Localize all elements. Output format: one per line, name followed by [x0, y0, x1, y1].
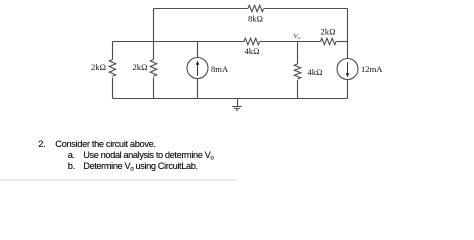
wire left-branch bottom: [112, 78, 114, 99]
problem text line 2b: [68, 161, 75, 171]
resistor R 4k (vertical, Vo branch): [294, 64, 300, 79]
wire second-branch top (from top wire to resistor): [153, 9, 155, 60]
resistor R 4k (middle horizontal): [244, 38, 260, 44]
wire left-branch top: [112, 42, 114, 60]
12mA source arrow (down): [346, 62, 350, 77]
wire second-branch bottom: [153, 78, 155, 99]
8mA source arrow (up): [196, 61, 200, 76]
svg-text:8kΩ: 8kΩ: [248, 14, 263, 24]
wire middle-left (x=112 to 4k): [113, 41, 245, 43]
wire 8mA-branch top: [197, 42, 199, 58]
svg-text:4kΩ: 4kΩ: [245, 46, 260, 56]
svg-text:2kΩ: 2kΩ: [321, 27, 336, 37]
resistor R 2k (middle right): [321, 38, 337, 44]
wire right-branch top: [347, 9, 349, 59]
current source I 12mA circle: [337, 59, 358, 80]
wire middle-right end: [337, 41, 348, 43]
wire middle-center (4k to 2k): [260, 41, 321, 43]
problem text line 1: [38, 139, 45, 149]
svg-text:2kΩ: 2kΩ: [91, 62, 106, 72]
problem text line 2a: [68, 150, 75, 160]
resistor R 2k (left branch): [109, 60, 115, 77]
wire Vo-branch bottom: [297, 80, 299, 99]
ground stub: [237, 99, 239, 107]
wire Vo-branch top: [297, 42, 299, 65]
wire bottom: [113, 98, 348, 100]
svg-text:Vo: Vo: [294, 33, 302, 40]
resistor R 8k (top): [248, 5, 264, 11]
current source I 8mA circle: [187, 58, 208, 79]
wire top-right: [264, 8, 348, 10]
svg-text:12mA: 12mA: [361, 64, 383, 74]
wire right-branch bottom: [347, 80, 349, 99]
svg-text:8mA: 8mA: [211, 64, 229, 74]
ground bars: [232, 107, 242, 111]
svg-text:2kΩ: 2kΩ: [133, 62, 148, 72]
wire top-left (node at x=153.5 to 8k resistor): [154, 8, 249, 10]
svg-text:4kΩ: 4kΩ: [308, 67, 323, 77]
faint page-edge line: [0, 179, 236, 181]
resistor R 2k (second branch): [150, 60, 156, 77]
wire 8mA-branch bottom: [197, 79, 199, 99]
